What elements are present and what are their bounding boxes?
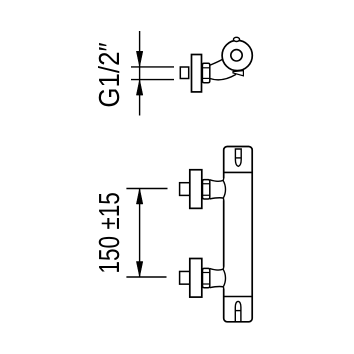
extension line top [126, 188, 167, 190]
bottom inlet nut [203, 268, 210, 287]
mixer body [224, 147, 253, 322]
dimension line 150 [136, 189, 143, 278]
pipe stub lines G1/2 [131, 67, 174, 80]
bottom inlet assembly [180, 259, 226, 298]
bottom inlet flange [190, 259, 202, 298]
top inlet trumpet [210, 177, 226, 202]
side view bottom outlet wedge [233, 71, 243, 76]
bottom inlet edge mask [223, 267, 226, 289]
svg-text:G1/2″: G1/2″ [94, 42, 126, 107]
side view pipe stub square [180, 67, 188, 79]
bottom inlet trumpet [210, 266, 226, 291]
top inlet edge mask [223, 178, 226, 200]
dimension line G1/2 [136, 31, 143, 116]
side view flange [192, 55, 202, 92]
top handle slot [235, 149, 241, 166]
body bottom section line [224, 296, 253, 298]
side view neck top curve [210, 59, 224, 66]
bottom inlet stub [180, 271, 190, 284]
top inlet stub [180, 183, 190, 196]
side view valve body circle [222, 40, 252, 70]
extension line bottom [126, 276, 166, 278]
top inlet assembly [180, 170, 226, 209]
top inlet nut [203, 180, 210, 199]
side view union nut [202, 63, 209, 82]
side view neck bottom curve [210, 74, 237, 79]
side view top button tab [233, 37, 239, 41]
svg-text:150 ±15: 150 ±15 [94, 192, 126, 273]
top inlet flange [190, 170, 202, 209]
side view cartridge inner circle [231, 50, 242, 61]
bottom handle slot [235, 301, 241, 321]
body top section line [224, 171, 253, 173]
